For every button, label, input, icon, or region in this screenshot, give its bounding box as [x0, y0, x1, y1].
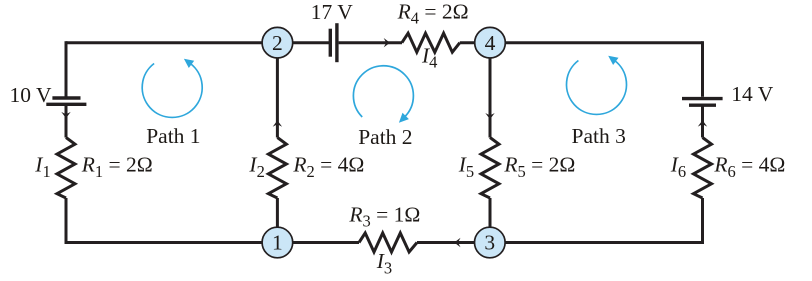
current arrow I2 up — [273, 120, 282, 126]
wire top left segment — [66, 41, 329, 44]
svg-text:Path 3: Path 3 — [572, 124, 626, 148]
path 3 loop arc — [567, 61, 627, 115]
svg-text:I2: I2 — [248, 153, 264, 181]
svg-text:R1 = 2Ω: R1 = 2Ω — [81, 153, 153, 181]
svg-text:R5 = 2Ω: R5 = 2Ω — [503, 153, 575, 181]
svg-text:17 V: 17 V — [311, 0, 353, 24]
wire branch node4 to R5 — [489, 43, 492, 138]
wire right branch middle — [701, 106, 704, 137]
resistor R5 — [481, 138, 499, 199]
path 1 loop arc — [142, 64, 202, 118]
wire top right segment — [460, 41, 703, 44]
node 4 — [475, 27, 506, 58]
svg-text:R4 = 2Ω: R4 = 2Ω — [397, 0, 469, 28]
battery V3 14V long plate — [682, 97, 723, 100]
wire left branch upper — [65, 41, 68, 96]
svg-text:R2 = 4Ω: R2 = 4Ω — [292, 153, 364, 181]
wire bottom left segment — [65, 241, 360, 244]
svg-text:I5: I5 — [458, 153, 474, 181]
path 2 loop arrowhead — [399, 113, 409, 123]
svg-text:R3 = 1Ω: R3 = 1Ω — [348, 202, 420, 230]
wire branch R2 to node1 — [276, 198, 279, 243]
svg-text:2: 2 — [272, 31, 283, 55]
svg-text:4: 4 — [485, 31, 496, 55]
svg-text:I6: I6 — [670, 153, 686, 181]
battery V1 10V long plate — [46, 103, 86, 106]
wire branch node2 to R2 — [276, 43, 279, 138]
battery V2 17V short plate — [329, 29, 332, 57]
path 2 loop arc — [353, 66, 413, 117]
battery V3 14V short plate — [689, 103, 716, 106]
svg-text:Path 1: Path 1 — [146, 124, 200, 148]
current arrow I5 down — [485, 113, 494, 119]
svg-text:14 V: 14 V — [731, 82, 773, 106]
svg-text:3: 3 — [484, 231, 495, 255]
wire bottom right segment — [417, 241, 704, 244]
wire branch R5 to node3 — [489, 198, 492, 243]
svg-text:I3: I3 — [376, 249, 392, 277]
resistor R1 — [57, 138, 75, 199]
wire left branch lower — [65, 198, 68, 244]
wire left branch middle — [65, 106, 68, 138]
battery V1 10V short plate — [52, 96, 80, 99]
resistor R6 — [694, 138, 712, 199]
current arrow I3 left — [454, 238, 460, 247]
svg-text:I4: I4 — [421, 43, 437, 71]
current arrow I4 right — [384, 38, 390, 47]
wire right branch upper — [701, 41, 704, 97]
node 2 — [262, 27, 293, 58]
path 3 loop arrowhead — [608, 56, 618, 65]
node 1 — [262, 227, 293, 258]
svg-text:I1: I1 — [34, 153, 50, 181]
svg-text:R6 = 4Ω: R6 = 4Ω — [713, 153, 785, 181]
resistor R4 — [402, 33, 460, 52]
resistor R3 — [359, 233, 417, 252]
wire top middle segment — [339, 41, 402, 44]
node 3 — [475, 227, 506, 258]
path 1 loop arrowhead — [184, 59, 194, 68]
battery V2 17V long plate — [335, 23, 338, 62]
current arrow I6 up — [698, 120, 707, 126]
current arrow I1 down — [61, 112, 70, 118]
resistor R2 — [268, 138, 286, 199]
svg-text:10 V: 10 V — [10, 83, 52, 107]
svg-text:1: 1 — [272, 231, 283, 255]
svg-text:Path 2: Path 2 — [358, 125, 412, 149]
wire right branch lower — [701, 198, 704, 243]
